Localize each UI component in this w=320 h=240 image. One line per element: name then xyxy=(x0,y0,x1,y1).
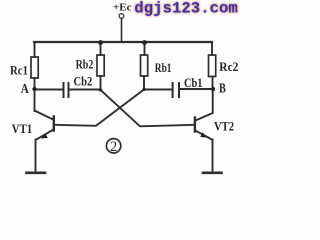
svg-text:Cb2: Cb2 xyxy=(74,74,93,89)
wire Rc1 top lead xyxy=(34,42,36,57)
transistor VT1 emitter lead xyxy=(37,129,54,139)
resistor Rc1 body xyxy=(31,57,38,78)
junction dot rail Rb1 xyxy=(142,40,147,45)
svg-text:B: B xyxy=(219,82,226,97)
svg-text:Cb1: Cb1 xyxy=(184,75,202,90)
wire Rb2 bottom lead xyxy=(100,76,102,90)
svg-text:Rc1: Rc1 xyxy=(10,63,28,78)
svg-text:VT2: VT2 xyxy=(214,119,234,134)
transistor VT1 base bar xyxy=(53,117,55,131)
ground VT2 xyxy=(203,172,222,175)
wire cross junction to VT2 base xyxy=(101,90,195,126)
capacitor Cb1 plates xyxy=(173,83,179,97)
transistor VT1 collector lead xyxy=(35,111,54,120)
wire node A to Cb2 xyxy=(35,89,63,91)
svg-text:Rb2: Rb2 xyxy=(76,57,94,72)
svg-text:Rc2: Rc2 xyxy=(219,59,238,74)
resistor Rc2 body xyxy=(209,55,216,77)
svg-text:Rb1: Rb1 xyxy=(155,60,172,75)
node A junction dot xyxy=(32,87,36,91)
wire Rb1 top lead xyxy=(144,42,146,55)
wire Cb1 to node B xyxy=(179,88,213,90)
svg-text:2: 2 xyxy=(110,139,117,155)
wire VT1 emitter down xyxy=(35,140,37,173)
svg-text:VT1: VT1 xyxy=(12,121,33,136)
wire Cb2 to base junction xyxy=(69,89,101,91)
transistor VT2 base bar xyxy=(194,118,196,132)
svg-text:A: A xyxy=(21,82,30,97)
wire Rb2 top lead xyxy=(100,42,102,55)
figure number circle xyxy=(106,139,120,153)
wire Rc1 bottom lead to node A xyxy=(34,78,36,111)
wire Rc2 top lead xyxy=(211,42,213,55)
wire VT2 collector from node B xyxy=(196,89,213,120)
junction dot rail Rb2 xyxy=(98,40,103,45)
node B junction dot xyxy=(211,87,215,91)
junction dot Rb2 base xyxy=(99,88,102,91)
wire top rail xyxy=(34,41,212,43)
wire VT2 emitter down xyxy=(212,140,214,173)
wire Cb1 junction to Cb1 xyxy=(144,89,171,91)
power terminal +Ec lead xyxy=(121,19,123,43)
ground VT1 xyxy=(27,172,46,175)
svg-text:+Ec: +Ec xyxy=(113,1,132,13)
wire Rc2 bottom lead to node B xyxy=(212,77,214,90)
wire Cb1 junction to VT1 base xyxy=(55,90,145,126)
capacitor Cb2 plates xyxy=(64,83,69,97)
junction dot Rb1 base xyxy=(142,88,145,91)
svg-text:dgjs123.com: dgjs123.com xyxy=(134,0,238,17)
transistor VT2 emitter lead xyxy=(195,130,213,140)
transistor VT1 emitter arrow xyxy=(41,133,48,138)
power terminal circle xyxy=(119,14,124,19)
transistor VT2 emitter arrow xyxy=(200,132,207,137)
resistor Rb1 body xyxy=(141,55,148,76)
wire Rb1 bottom lead xyxy=(143,76,145,90)
resistor Rb2 body xyxy=(97,55,104,76)
